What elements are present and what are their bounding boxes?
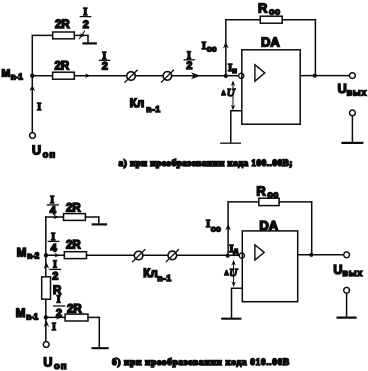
svg-text:n-1: n-1: [11, 72, 24, 81]
op-amp input circle (b): [239, 253, 244, 258]
feedback top wire right (a): [282, 19, 315, 21]
switch Kl n-1 contact 2 (b): [168, 251, 177, 260]
wire: drop to ground (top branch b): [98, 217, 100, 224]
feedback left vertical with Ioc arrow (a): [225, 20, 227, 76]
ground (Mn-1 branch b): [93, 347, 108, 349]
arrow on top branch b: [54, 215, 60, 219]
resistor R (vertical, b): [42, 277, 51, 299]
svg-text:I: I: [52, 322, 56, 333]
wire terminal 2 to ground (b): [346, 293, 348, 316]
svg-text:R: R: [258, 0, 268, 15]
terminal Uop (b): [43, 342, 49, 348]
feedback right vertical (b): [311, 202, 313, 255]
svg-text:2: 2: [186, 60, 192, 72]
svg-text:2: 2: [102, 60, 108, 72]
svg-text:U: U: [333, 263, 342, 277]
ground (op-amp a): [221, 142, 240, 144]
wire: main branch b to resistor: [46, 254, 65, 256]
svg-text:R: R: [256, 183, 266, 198]
junction node at op-amp input (a): [224, 74, 228, 78]
wire into op-amp input circle (a): [226, 75, 239, 77]
svg-text:и: и: [232, 66, 237, 75]
svg-text:∆: ∆: [222, 90, 226, 97]
wire: drop to ground (top branch a): [87, 35, 89, 43]
wire: Mn-1 branch b to resistor: [46, 316, 66, 318]
svg-text:б) при преобразовании кода 010: б) при преобразовании кода 010..00В: [112, 357, 290, 368]
feedback right vertical (a): [314, 20, 316, 76]
svg-text:ос: ос: [269, 7, 280, 17]
ground (top branch b): [93, 223, 106, 225]
svg-text:n-2: n-2: [27, 252, 40, 261]
svg-text:2R: 2R: [55, 19, 70, 31]
arrow on top branch a: [80, 33, 86, 37]
switch Kl n-1 contact 2 (a): [163, 72, 172, 81]
svg-text:М: М: [16, 308, 26, 320]
svg-text:Кл: Кл: [143, 268, 157, 280]
op-amp triangle (b): [255, 245, 264, 260]
resistor 2R (Mn-1 branch b): [65, 314, 88, 321]
wire: top branch b: [46, 216, 64, 218]
svg-text:2R: 2R: [55, 61, 70, 73]
svg-text:4: 4: [51, 242, 58, 254]
svg-text:DA: DA: [259, 218, 278, 233]
wire: riser b upper (top corner to R resistor): [45, 217, 47, 277]
wire: non-inverting input step to ground (a): [231, 111, 242, 143]
wire: Mn-1 branch after resistor: [88, 316, 99, 318]
wire: top branch b after resistor: [85, 216, 98, 218]
terminal 2 (b): [344, 287, 350, 293]
wire: top branch horizontal to resistor: [32, 34, 53, 36]
ground (terminal a): [343, 142, 363, 144]
svg-text:n-1: n-1: [26, 312, 39, 321]
output wire (b): [298, 254, 344, 256]
wire into op-amp input circle (b): [228, 254, 240, 256]
switch Kl n-1 contact 1 (a): [127, 72, 136, 81]
svg-text:I: I: [206, 218, 210, 230]
resistor Roc (b): [259, 198, 279, 205]
resistor 2R (main branch a): [53, 72, 75, 79]
svg-text:n-1: n-1: [146, 104, 160, 114]
wire: drop to ground (Mn-1 branch b): [98, 317, 100, 347]
arrow up on riser below Mn-2: [44, 262, 50, 269]
arrow after resistor (main a): [85, 74, 91, 78]
svg-text:вых: вых: [342, 268, 363, 278]
terminal Uop (a): [30, 133, 36, 139]
svg-text:2R: 2R: [66, 202, 81, 214]
svg-text:оп: оп: [54, 361, 68, 371]
junction node at op-amp input (b): [226, 254, 230, 258]
junction on output (b): [309, 253, 313, 257]
node Mn-1 (a): [30, 74, 34, 78]
svg-text:U: U: [227, 87, 236, 99]
output wire (a): [300, 75, 349, 77]
feedback top wire left (a): [226, 19, 261, 21]
wire: main branch a to resistor: [32, 75, 53, 77]
arrow after node Mn-1 (b): [56, 315, 62, 319]
feedback left vertical with Ioc arrow (b): [227, 202, 229, 255]
svg-text:д: д: [233, 246, 238, 255]
op-amp U2 box DA (b): [242, 231, 297, 302]
wire: main branch a long run: [74, 75, 226, 77]
resistor 2R (top branch b): [64, 214, 86, 221]
op-amp triangle (a): [255, 65, 265, 82]
svg-text:I: I: [202, 40, 206, 52]
resistor 2R (top branch a): [53, 32, 75, 39]
feedback top wire left (b): [228, 201, 259, 203]
svg-text:М: М: [2, 68, 11, 80]
switch Kl n-1 contact 1 (b): [134, 251, 143, 260]
terminal Uvych (a): [350, 73, 356, 79]
node Mn-1 (b): [44, 315, 48, 319]
svg-text:4: 4: [50, 205, 57, 217]
wire: non-inverting input step to ground (b): [232, 288, 243, 318]
delta-U indicator (b): [233, 262, 235, 286]
terminal Uvych (b): [344, 252, 350, 258]
ground (top branch a): [84, 42, 96, 44]
svg-text:вых: вых: [347, 87, 368, 97]
svg-text:DA: DA: [261, 35, 280, 50]
arrow after node (main b): [54, 253, 60, 257]
svg-text:2R: 2R: [66, 240, 81, 252]
svg-text:2R: 2R: [67, 304, 82, 316]
svg-text:ос: ос: [211, 223, 221, 233]
wire terminal 2 to ground (a): [351, 116, 353, 142]
node Mn-2 (b): [44, 253, 48, 257]
feedback top wire right (b): [279, 201, 312, 203]
wire: main branch b long run: [87, 254, 228, 256]
svg-text:а) при преобразовании кода 100: а) при преобразовании кода 100..00В;: [119, 158, 293, 169]
svg-text:I: I: [57, 295, 61, 306]
svg-text:2: 2: [83, 19, 89, 31]
resistor Roc (a): [260, 16, 282, 23]
svg-text:М: М: [17, 247, 27, 259]
svg-text:U: U: [229, 267, 238, 279]
arrow into summing node (a): [191, 72, 201, 79]
svg-text:n-1: n-1: [157, 273, 171, 283]
delta-U indicator (a): [232, 82, 234, 109]
svg-text:I: I: [37, 102, 41, 113]
ground (terminal b): [338, 317, 356, 319]
op-amp input circle (a): [239, 73, 244, 78]
wire: riser from top branch down through node Mn-1 to Uop terminal: [31, 35, 33, 132]
junction on output (a): [313, 74, 317, 78]
svg-text:ос: ос: [207, 44, 217, 54]
svg-text:ос: ос: [267, 190, 278, 200]
wire: riser b lower (R to Uop terminal): [45, 299, 47, 341]
op-amp U1 box DA (a): [242, 50, 300, 124]
terminal 2 (a): [350, 110, 356, 116]
svg-text:U: U: [43, 355, 52, 369]
svg-text:U: U: [338, 82, 347, 96]
svg-text:Кл: Кл: [130, 98, 144, 110]
svg-text:∆: ∆: [225, 270, 229, 277]
svg-text:оп: оп: [43, 149, 57, 160]
arrow I up on riser (a): [30, 85, 36, 92]
ground (op-amp b): [222, 318, 240, 320]
arrow up on riser below Mn-1 (b): [44, 320, 50, 327]
svg-text:2: 2: [52, 271, 58, 283]
resistor 2R (main branch b): [64, 252, 86, 259]
svg-text:U: U: [32, 144, 41, 158]
wire: top branch after resistor: [74, 34, 88, 36]
